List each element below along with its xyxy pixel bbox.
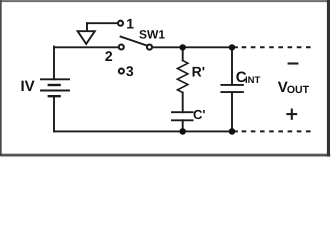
svg-text:IV: IV	[21, 78, 35, 95]
svg-text:R': R'	[192, 63, 205, 79]
svg-text:2: 2	[105, 48, 113, 64]
svg-text:INT: INT	[245, 75, 261, 86]
svg-text:C': C'	[193, 107, 205, 122]
svg-text:1: 1	[126, 16, 134, 32]
svg-text:3: 3	[126, 63, 134, 79]
svg-text:OUT: OUT	[287, 84, 310, 96]
svg-text:SW1: SW1	[139, 28, 165, 42]
